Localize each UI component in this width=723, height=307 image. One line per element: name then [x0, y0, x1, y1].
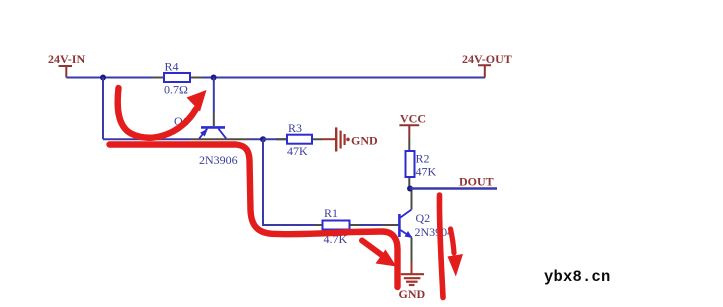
svg-text:R2: R2 [416, 152, 430, 166]
annotation red vertical stroke right with arrow [439, 195, 463, 298]
wire Q2 collector up to node D [411, 189, 413, 210]
svg-text:DOUT: DOUT [459, 175, 494, 189]
resistor R4 [164, 60, 190, 97]
wire left branch down [102, 78, 104, 140]
resistor R1 [315, 206, 399, 246]
wire Q2 emitter down to ground [411, 238, 413, 262]
svg-text:R1: R1 [324, 206, 338, 220]
svg-text:GND: GND [399, 287, 426, 301]
resistor R2 [406, 139, 437, 189]
ground GND (bottom) [399, 262, 426, 301]
svg-text:ybx8.cn: ybx8.cn [544, 268, 611, 286]
wire DOUT [410, 187, 497, 189]
svg-text:R3: R3 [288, 121, 302, 135]
transistor Q2 2N3904 [399, 210, 453, 240]
node C junction collector/R3/R1 [260, 136, 266, 142]
wire Q1 base from node B [213, 78, 215, 113]
port 24V-OUT [462, 52, 512, 78]
wire top main 24V rail [66, 77, 485, 79]
node D junction R2/collector/DOUT [407, 186, 413, 192]
svg-text:Q2: Q2 [416, 211, 431, 225]
svg-text:2N3906: 2N3906 [199, 153, 238, 167]
svg-text:2N3904: 2N3904 [415, 225, 454, 239]
port 24V-IN [48, 52, 85, 78]
svg-text:47K: 47K [287, 144, 308, 158]
node A junction at 24V-IN branch [100, 75, 106, 81]
resistor R3 [263, 121, 323, 158]
power ground GND (top) [323, 127, 378, 151]
wire node C down to R1 row [263, 139, 315, 225]
svg-text:24V-OUT: 24V-OUT [462, 52, 512, 66]
svg-text:0.7Ω: 0.7Ω [164, 83, 188, 97]
annotation red U-curve with arrow (around Q1) [118, 88, 207, 138]
svg-text:24V-IN: 24V-IN [48, 52, 85, 66]
svg-text:GND: GND [351, 134, 378, 148]
wire emitter row [103, 138, 263, 140]
svg-text:R4: R4 [165, 60, 179, 74]
svg-text:VCC: VCC [400, 112, 426, 126]
node B junction right of R4 [211, 75, 217, 81]
transistor Q1 2N3906 [174, 114, 238, 167]
svg-text:47K: 47K [416, 165, 437, 179]
wire R4 leads [152, 77, 202, 79]
annotation red arrow into bottom ground [362, 241, 397, 267]
annotation red long path to bottom ground [110, 145, 398, 288]
power VCC [399, 112, 426, 140]
